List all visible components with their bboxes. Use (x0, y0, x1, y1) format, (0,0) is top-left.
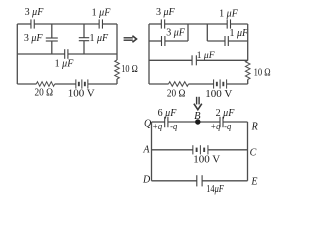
svg-text:2 μF: 2 μF (216, 108, 236, 119)
wire fig1 right edge lower (116, 79, 118, 84)
wire fig2 row2 left segment a (149, 40, 162, 42)
svg-text:+q: +q (210, 121, 221, 131)
label 1 uF fig2 top (219, 9, 239, 20)
wire fig2 bottom middle segment (189, 83, 214, 85)
capacitor 3uF fig1 top wire (31, 19, 34, 28)
wire fig2 row2 left segment b (165, 40, 188, 42)
svg-text:3 μF: 3 μF (166, 27, 186, 38)
wire fig2 right edge lower (247, 80, 249, 85)
wire fig1 branch2 vertical upper (83, 24, 85, 38)
wire fig3 row3 right segment (202, 180, 247, 182)
label 1 uF fig2 row2 (230, 28, 250, 39)
svg-text:R: R (251, 122, 258, 133)
wire fig1 bottom middle segment (55, 83, 76, 85)
label A fig3 (142, 145, 150, 156)
svg-text:C: C (250, 147, 257, 158)
capacitor 3uF fig2 top wire (161, 19, 164, 28)
wire fig2 inner vertical 2 (206, 24, 208, 41)
svg-text:20 Ω: 20 Ω (167, 88, 186, 100)
svg-text:Q: Q (144, 119, 152, 130)
svg-text:10 Ω: 10 Ω (254, 67, 271, 78)
capacitor 3uF fig1 branch1 (46, 38, 58, 41)
wire fig3 row1 middle segment (168, 121, 220, 123)
wire fig2 row2 right segment a (207, 40, 225, 42)
resistor 10 ohm fig2 (245, 61, 250, 80)
label -q fig3 cap 2uF right (224, 121, 232, 131)
wire fig1 top-right segment (102, 23, 117, 25)
svg-text:3 μF: 3 μF (156, 7, 176, 18)
label E fig3 (250, 176, 257, 187)
label 3 uF fig2 row2 (166, 27, 186, 38)
label 20 ohm fig2 (167, 88, 186, 100)
label 100 V fig2 (205, 88, 232, 100)
wire fig1 top-left segment (17, 23, 31, 25)
label 10 ohm fig2 (254, 67, 271, 78)
svg-text:100 V: 100 V (205, 88, 232, 100)
wire fig2 top-right segment (231, 23, 248, 25)
capacitor 1uF fig1 middle wire (65, 49, 68, 59)
svg-text:1 μF: 1 μF (90, 33, 110, 44)
svg-text:1 μF: 1 μF (219, 9, 239, 20)
wire fig2 bottom-left segment (149, 83, 169, 85)
wire fig2 right edge upper (247, 24, 249, 61)
svg-text:1 μF: 1 μF (230, 28, 250, 39)
wire fig2 top-left segment (149, 23, 161, 25)
label 100 V fig3 (193, 154, 220, 166)
label 1 uF fig1 branch2 (90, 33, 110, 44)
svg-text:-q: -q (224, 121, 232, 131)
label Q fig3 (144, 119, 152, 130)
wire fig1 branch1 vertical upper (51, 24, 53, 38)
svg-text:14μF: 14μF (206, 184, 224, 195)
wire fig3 row1 left segment (152, 121, 165, 123)
svg-text:E: E (250, 176, 257, 187)
battery 100V fig1 (76, 79, 88, 88)
wire fig2 inner vertical 1 (187, 24, 189, 41)
wire fig1 middle wire left (17, 53, 64, 55)
label 1 uF fig1 middle (55, 59, 75, 70)
wire fig3 left edge (151, 122, 153, 181)
label 100 V fig1 (68, 88, 95, 100)
label 10 ohm fig1 (121, 64, 138, 75)
capacitor 1uF fig2 row3 (192, 55, 196, 65)
label D fig3 (142, 175, 151, 186)
svg-text:D: D (142, 175, 151, 186)
label 20 ohm fig1 (35, 87, 54, 99)
svg-text:100 V: 100 V (193, 154, 220, 166)
arrow implies right (124, 36, 137, 43)
resistor 10 ohm fig1 (115, 60, 120, 79)
label 6 uF fig3 (158, 108, 178, 119)
wire fig2 bottom-right segment (227, 83, 248, 85)
label 1 uF fig1 top (92, 8, 112, 19)
label 3 uF fig1 branch1 (24, 33, 44, 44)
wire fig3 row3 left segment (152, 180, 197, 182)
wire fig2 top middle segment (165, 23, 228, 25)
wire fig1 left edge (16, 24, 18, 84)
node B fig3 (195, 119, 200, 124)
wire fig1 middle wire right (68, 53, 117, 55)
label +q fig3 cap 2uF left (210, 121, 221, 131)
wire fig3 right edge (247, 122, 249, 181)
svg-text:10 Ω: 10 Ω (121, 64, 138, 75)
capacitor 6uF fig3 row1 (165, 117, 168, 127)
svg-text:+q: +q (152, 121, 163, 131)
label 3 uF fig1 top (25, 7, 45, 18)
label R fig3 (251, 122, 258, 133)
arrow implies down (194, 97, 202, 110)
svg-text:20 Ω: 20 Ω (35, 87, 54, 99)
wire fig2 left edge (148, 24, 150, 84)
label 3 uF fig2 top (156, 7, 176, 18)
wire fig2 row3 right segment (197, 59, 248, 61)
resistor 20 ohm fig2 (169, 82, 189, 87)
wire fig1 bottom-right segment (88, 83, 117, 85)
wire fig3 row2 right segment (208, 149, 248, 151)
wire fig1 branch2 vertical lower (83, 41, 85, 54)
wire fig2 row2 right segment b (228, 40, 247, 42)
svg-text:-q: -q (170, 121, 178, 131)
wire fig1 bottom-left segment (17, 83, 36, 85)
capacitor 2uF fig3 row1 (220, 117, 223, 127)
label 14uF fig3 (206, 184, 224, 195)
wire fig3 row2 left segment (152, 149, 193, 151)
svg-text:B: B (194, 111, 201, 122)
wire fig3 row1 right segment (223, 121, 247, 123)
wire fig1 top middle segment (34, 23, 99, 25)
svg-text:1 μF: 1 μF (92, 8, 112, 19)
capacitor 1uF fig1 branch2 (79, 38, 89, 41)
battery 100V fig2 (214, 79, 227, 88)
capacitor 14uF fig3 row3 (197, 175, 202, 186)
wire fig1 right edge upper (116, 24, 118, 60)
svg-text:6 μF: 6 μF (158, 108, 178, 119)
svg-text:A: A (142, 145, 150, 156)
label 2 uF fig3 (216, 108, 236, 119)
svg-text:3 μF: 3 μF (24, 33, 44, 44)
capacitor 3uF fig2 row2 (162, 36, 165, 46)
label +q fig3 cap 6uF left (152, 121, 163, 131)
capacitor 1uF fig2 row2 (225, 36, 228, 46)
capacitor 1uF fig1 top wire (99, 19, 102, 28)
battery 100V fig3 (193, 145, 208, 154)
svg-text:100 V: 100 V (68, 88, 95, 100)
resistor 20 ohm fig1 (36, 82, 54, 87)
svg-text:3 μF: 3 μF (25, 7, 45, 18)
svg-text:1 μF: 1 μF (197, 51, 215, 61)
wire fig1 branch1 vertical lower (51, 41, 53, 54)
svg-text:1 μF: 1 μF (55, 59, 75, 70)
label -q fig3 cap 6uF right (170, 121, 178, 131)
label 1 uF fig2 row3 (197, 51, 215, 61)
wire fig2 row3 left segment (149, 59, 192, 61)
capacitor 1uF fig2 top wire (227, 19, 230, 28)
label B fig3 (194, 111, 201, 122)
label C fig3 (250, 147, 257, 158)
